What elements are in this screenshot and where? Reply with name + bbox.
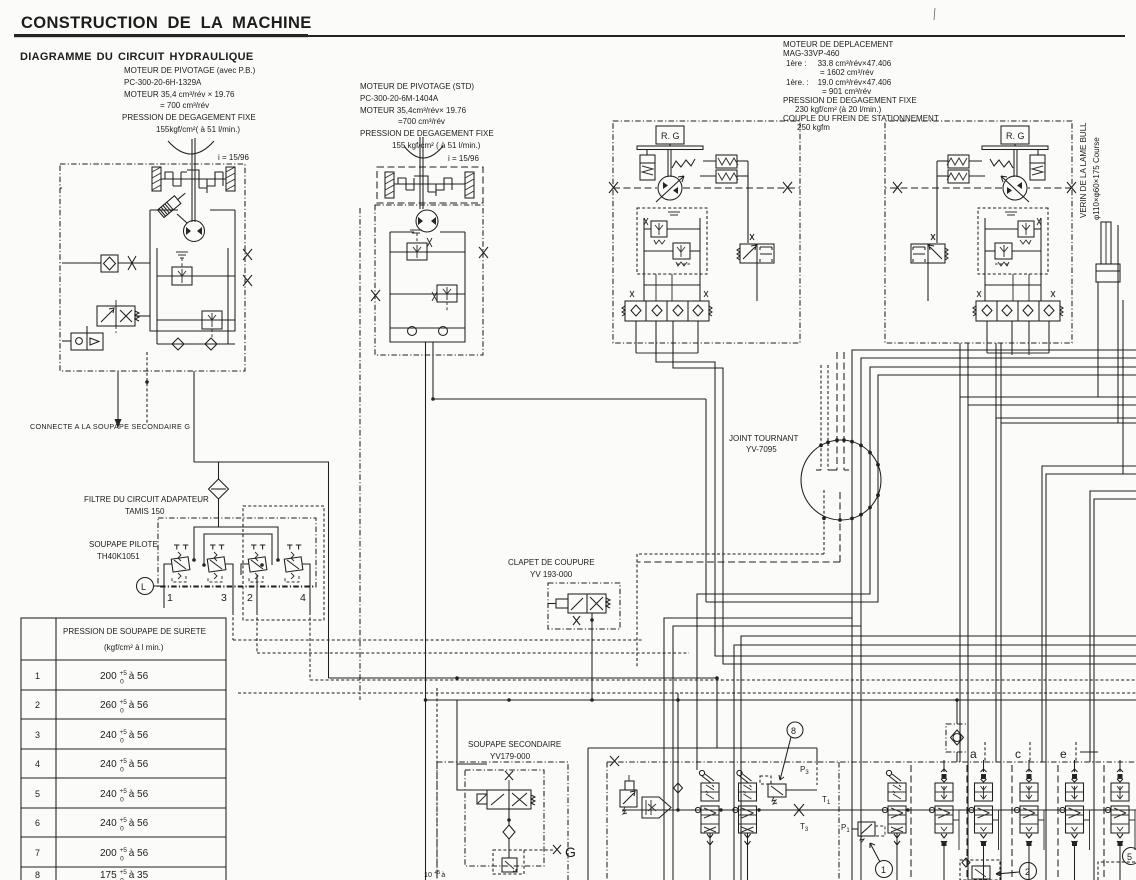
pilot block dash-dot box (158, 518, 316, 587)
swivel dashed drain 1 (836, 352, 838, 470)
port plug X right (479, 247, 488, 258)
svg-text:PRESSION DE SOUPAPE DE SURETE: PRESSION DE SOUPAPE DE SURETE (63, 627, 206, 636)
wire P3 drop (816, 748, 818, 762)
travel L line A (656, 343, 1136, 656)
svg-text:6: 6 (35, 818, 40, 828)
gear housing hatch left (152, 167, 161, 191)
table row lines (21, 659, 226, 661)
check valve with restrictor (92, 255, 150, 272)
svg-text:2: 2 (1025, 867, 1030, 877)
blade circuit elbow 3 (1090, 491, 1136, 762)
spool section c (1014, 760, 1044, 880)
spool section f (1105, 760, 1135, 880)
svg-text:TH40K1051: TH40K1051 (97, 552, 140, 561)
svg-text:(kgf/cm² à l min.): (kgf/cm² à l min.) (104, 643, 164, 652)
svg-text:1: 1 (881, 865, 886, 875)
svg-text:YV 193-000: YV 193-000 (530, 570, 573, 579)
motor block dash-dot box (375, 205, 483, 355)
svg-text:CONNECTE A LA SOUPAPE SECONDAI: CONNECTE A LA SOUPAPE SECONDAIRE G (30, 422, 190, 431)
boundary plug X (610, 756, 619, 766)
filter F1 (209, 479, 229, 499)
svg-text:JOINT TOURNANT: JOINT TOURNANT (729, 434, 798, 443)
spool section a (969, 760, 999, 880)
motor case lines (390, 232, 465, 328)
P1 relief valve (852, 822, 885, 843)
svg-text:155 kgf/cm² ( à 51 l/min.): 155 kgf/cm² ( à 51 l/min.) (392, 141, 481, 150)
svg-text:YV179-000: YV179-000 (490, 752, 531, 761)
secondary valve inner dash-dot box (465, 770, 544, 866)
port plug X right upper (243, 249, 252, 260)
pressure reducing valve 1 (171, 545, 190, 582)
swing feed stair 4 (706, 375, 1136, 602)
gear train STD (394, 176, 465, 196)
secondary valve outer dash-dot box (436, 762, 438, 880)
restrictor X (128, 256, 136, 270)
svg-text:PRESSION DE DEGAGEMENT FIXE: PRESSION DE DEGAGEMENT FIXE (122, 113, 256, 122)
gear housing dashed box (377, 167, 483, 203)
makeup check diamonds (172, 338, 184, 350)
pilot 2-port valve (62, 333, 103, 350)
drain bus dashed upper (310, 679, 1136, 681)
svg-text:CONSTRUCTION DE LA MACHINE: CONSTRUCTION DE LA MACHINE (21, 14, 312, 32)
svg-text:8: 8 (791, 726, 796, 736)
junction dots wires (424, 698, 428, 702)
relief valve lower (432, 285, 457, 311)
dashed drain from swing box (146, 352, 148, 424)
svg-text:= 1602 cm³/rév: = 1602 cm³/rév (820, 68, 874, 77)
svg-text:c: c (1015, 747, 1021, 761)
swivel dashed below 1 (823, 490, 825, 554)
svg-text:FILTRE DU CIRCUIT ADAPATEUR: FILTRE DU CIRCUIT ADAPATEUR (84, 495, 209, 504)
blade cylinder rod (1101, 222, 1111, 264)
brake release solenoid valve (97, 300, 139, 326)
clapet outlet (590, 618, 594, 622)
svg-text:e: e (1060, 747, 1067, 761)
stair branch E3 (741, 636, 1136, 880)
pilot output drops (163, 575, 165, 608)
pilot boundary dash-dot (359, 208, 361, 700)
svg-text:i = 15/96: i = 15/96 (448, 154, 479, 163)
main pump bus P (622, 809, 1136, 811)
wire P3 header (588, 747, 817, 749)
swivel dashed below 2 (839, 492, 841, 562)
swing motor M1 (184, 221, 205, 242)
svg-text:MOTEUR 35,4cm³/rév× 19.76: MOTEUR 35,4cm³/rév× 19.76 (360, 106, 467, 115)
stray tick mark (934, 8, 935, 20)
pilot feed manifold (194, 527, 278, 560)
spool section 1 swing (695, 770, 719, 880)
drain sub valve (502, 858, 517, 872)
svg-text:CLAPET DE COUPURE: CLAPET DE COUPURE (508, 558, 595, 567)
spool section 4 (929, 760, 959, 880)
pilot line 4 dashed (309, 612, 311, 680)
svg-text:PC-300-20-6H-1329A: PC-300-20-6H-1329A (124, 78, 202, 87)
servo piston symbol (158, 189, 189, 217)
callout circle 5 partial (1123, 848, 1136, 865)
travel motor right (mirrored) (885, 121, 1076, 355)
travel R drop 3 (995, 343, 997, 762)
check valve box top (946, 700, 968, 762)
svg-text:4: 4 (300, 592, 306, 604)
wire filter tee (194, 461, 219, 463)
svg-text:3: 3 (35, 730, 40, 740)
travel R supply stair 2 (861, 358, 1136, 880)
hatch left (385, 172, 394, 198)
svg-text:MOTEUR DE PIVOTAGE (STD): MOTEUR DE PIVOTAGE (STD) (360, 82, 474, 91)
drain sub valve dashed box (493, 850, 524, 874)
svg-text:250 kgfm: 250 kgfm (797, 123, 830, 132)
svg-text:PRESSION DE DEGAGEMENT FIXE: PRESSION DE DEGAGEMENT FIXE (783, 96, 917, 105)
svg-text:φ110×φ60×175 Course: φ110×φ60×175 Course (1092, 137, 1101, 220)
callout circle 1 (876, 861, 893, 878)
port L circle (137, 578, 154, 595)
svg-text:MAG-33VP-460: MAG-33VP-460 (783, 49, 840, 58)
svg-text:1: 1 (35, 671, 40, 681)
check valve ball (503, 825, 515, 839)
swivel dashed pilot 2 (827, 365, 829, 470)
swivel joint port dots (819, 444, 823, 448)
main relief valve 8 (760, 776, 817, 804)
pilot bus 1 dashed (233, 639, 643, 641)
swivel joint circle (801, 440, 881, 520)
clapet dash-dot box (548, 583, 620, 629)
cross lines (390, 251, 465, 253)
svg-text:3: 3 (221, 592, 227, 604)
swing STD return long drop (425, 342, 427, 880)
junction dots pilot (192, 558, 196, 562)
secondary solenoid valve (477, 790, 535, 809)
pilot line 3 dashed (232, 612, 234, 640)
svg-text:R. G: R. G (661, 131, 680, 141)
svg-text:YV-7095: YV-7095 (746, 445, 777, 454)
spool section 2 (733, 770, 757, 880)
svg-text:MOTEUR DE DEPLACEMENT: MOTEUR DE DEPLACEMENT (783, 40, 893, 49)
svg-text:=700 cm³/rév: =700 cm³/rév (398, 117, 445, 126)
svg-text:1: 1 (167, 592, 173, 604)
swing motor M2 (416, 210, 438, 232)
callout circle 2 (1020, 863, 1037, 880)
svg-text:5: 5 (1127, 852, 1132, 862)
travel L line B (673, 343, 1136, 664)
section divider dashes (910, 765, 912, 880)
svg-text:MOTEUR 35,4 cm³/rév × 19.76: MOTEUR 35,4 cm³/rév × 19.76 (124, 90, 235, 99)
pilot outlet stubs (164, 564, 310, 575)
relief valve left (172, 252, 192, 285)
drain arrow to soupape secondaire G (117, 371, 119, 420)
swing feed stair 3 (697, 367, 1136, 770)
swivel dashed drain 2 (843, 352, 845, 470)
pressure reducing valve 3 (207, 545, 226, 582)
pressure reducing valve 4 (284, 545, 303, 582)
clapet drain plug X (573, 616, 580, 625)
control valve boundary dash-dot (607, 761, 1136, 763)
travel R drop 2 (967, 343, 969, 880)
left feed line (587, 748, 589, 880)
svg-text:PRESSION DE DEGAGEMENT FIXE: PRESSION DE DEGAGEMENT FIXE (360, 129, 494, 138)
clapet dashed box edge (636, 554, 638, 667)
svg-text:TAMIS 150: TAMIS 150 (125, 507, 165, 516)
svg-text:1ère : 33.8 cm³/rév×47.406: 1ère : 33.8 cm³/rév×47.406 (786, 59, 892, 68)
case bottom (390, 328, 465, 342)
port plug X right lower (243, 275, 252, 286)
dashed drain drop (436, 688, 438, 880)
svg-text:8: 8 (35, 870, 40, 880)
port plug X left (371, 290, 380, 301)
blade circuit elbow 2 (1046, 474, 1136, 880)
svg-text:2: 2 (35, 700, 40, 710)
filter feed line (219, 462, 329, 604)
svg-text:i = 15/96: i = 15/96 (218, 153, 249, 162)
svg-text:1ère. : 19.0 cm³/rév×47.406: 1ère. : 19.0 cm³/rév×47.406 (786, 78, 892, 87)
aux valve 2 (960, 858, 1000, 880)
relief valve right (202, 311, 222, 337)
drop from case bottom (193, 371, 195, 462)
pilot line into servo (177, 214, 187, 223)
svg-text:= 901 cm³/rév: = 901 cm³/rév (822, 87, 871, 96)
wire pilot supply to bank (716, 678, 718, 748)
svg-text:PC-300-20-6M-1404A: PC-300-20-6M-1404A (360, 94, 439, 103)
relief valve upper (407, 230, 432, 260)
crossover lines in motor case (157, 275, 235, 277)
svg-text:7: 7 (35, 848, 40, 858)
inner motor case box (150, 210, 235, 331)
travel R drop 1 (959, 343, 961, 762)
pressure reducing valve 2 (248, 545, 267, 582)
makeup checks (408, 327, 417, 336)
gear housing hatch right (226, 167, 235, 191)
wire tank return left (426, 699, 458, 701)
swing STD supply elbow (433, 342, 706, 399)
stair branch E2 (673, 626, 861, 880)
feed lines secondary (457, 700, 592, 764)
unloading valve (620, 775, 637, 814)
svg-text:2: 2 (247, 592, 253, 604)
svg-text:5: 5 (35, 789, 40, 799)
reduction gear train (161, 170, 226, 193)
valve vent X (505, 771, 513, 780)
blade cylinder body (1096, 264, 1120, 282)
svg-text:4: 4 (35, 759, 40, 769)
svg-text:COUPLE DU FREIN DE STATIONNEME: COUPLE DU FREIN DE STATIONNEMENT (783, 114, 939, 123)
wire pilot supply down (328, 604, 330, 678)
partial dashed box bottom right (1098, 862, 1136, 880)
wires swing block (62, 262, 92, 264)
swing machinery arc (P.B.) (168, 141, 214, 154)
blade circuit elbow 1 (1042, 466, 1136, 762)
svg-text:DIAGRAMME DU CIRCUIT HYDRAULIQ: DIAGRAMME DU CIRCUIT HYDRAULIQUE (20, 51, 253, 63)
swing machinery arc (STD) (404, 146, 443, 158)
wire pilot supply right (329, 677, 718, 679)
svg-text:G: G (565, 844, 576, 860)
svg-text:SOUPAPE PILOTE: SOUPAPE PILOTE (89, 540, 158, 549)
suction strainer arrow (642, 797, 671, 818)
svg-text:= 700 cm³/rév: = 700 cm³/rév (160, 101, 209, 110)
pilot bus 2 dashed (257, 652, 689, 654)
P1 section border dash-dot (838, 762, 840, 880)
relief pressure table frame (21, 618, 226, 880)
shutoff valve body (548, 594, 610, 613)
travel motor left (609, 121, 800, 355)
swing shaft STD (419, 137, 421, 209)
cylinder port lines (1097, 282, 1099, 397)
stair branch E1 (664, 618, 852, 880)
svg-text:MOTEUR DE PIVOTAGE (avec P.B.): MOTEUR DE PIVOTAGE (avec P.B.) (124, 66, 256, 75)
feed junction diamond (677, 693, 679, 810)
svg-text:R. G: R. G (1006, 131, 1025, 141)
drain bus dashed lower (238, 692, 1136, 694)
travel R drop 4 (1000, 343, 1002, 880)
wire tank return right (592, 699, 1136, 701)
svg-text:230 kgf/cm² (à 20 l/min.): 230 kgf/cm² (à 20 l/min.) (795, 105, 882, 114)
svg-text:a: a (970, 747, 977, 761)
spool section 3 (882, 770, 906, 880)
swivel dashed pilot 1 (820, 365, 822, 470)
spool section e (1060, 760, 1090, 880)
callout circle 8 (787, 722, 803, 738)
pilot line 2 dashed (256, 612, 258, 653)
svg-text:SOUPAPE SECONDAIRE: SOUPAPE SECONDAIRE (468, 740, 561, 749)
outer swing dash-dot box (60, 164, 245, 371)
swing shaft (191, 139, 193, 222)
travel R supply stair 1 (852, 350, 1136, 880)
table column divider (55, 618, 57, 880)
pilot block dashed box right (243, 506, 324, 620)
bus junction X (794, 804, 804, 816)
hatch right (465, 172, 474, 198)
svg-text:VERIN DE LA LAME BULL: VERIN DE LA LAME BULL (1079, 122, 1088, 218)
title rule (14, 34, 308, 37)
svg-text:L: L (141, 582, 146, 592)
stair branch E4 (734, 645, 1136, 880)
svg-text:155kgf/cm²( à 51 l/min.): 155kgf/cm²( à 51 l/min.) (156, 125, 240, 134)
blade circuit elbow 4 (1094, 499, 1136, 880)
pilot bottom bus (160, 585, 316, 587)
